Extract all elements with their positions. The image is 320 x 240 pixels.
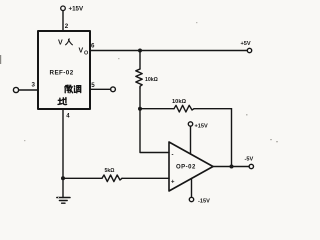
- wire: Vo output pin 6 to +5V: [90, 50, 247, 52]
- svg-text:10kΩ: 10kΩ: [145, 77, 158, 83]
- svg-text:V: V: [79, 48, 84, 55]
- terminal -15V (op-amp supply): [189, 197, 193, 201]
- junction output node: [230, 165, 234, 169]
- svg-text:V: V: [58, 39, 63, 46]
- wire: node B down to inverting input: [140, 109, 169, 153]
- terminal +5V: [247, 48, 251, 52]
- svg-text:5kΩ: 5kΩ: [105, 168, 115, 174]
- label ground pin (地): [58, 98, 67, 105]
- resistor R1 10k vertical: wire + zigzag: [139, 51, 141, 70]
- IC U1 REF-02 box: [38, 31, 90, 109]
- svg-text:REF-02: REF-02: [50, 69, 74, 76]
- junction node A (output / R1): [138, 49, 142, 53]
- op-amp U2 OP-02 triangle: [169, 142, 213, 191]
- terminal -5V: [249, 164, 253, 168]
- svg-text:4: 4: [66, 113, 70, 119]
- wire: +15V terminal to pin 2: [62, 11, 64, 31]
- svg-text:10kΩ: 10kΩ: [172, 99, 186, 105]
- resistor R2 10k horizontal feedback: wire + zigzag: [140, 108, 174, 110]
- junction node B (R1 / R2 / inverting line): [138, 107, 142, 111]
- resistor R3 5k: wire + zigzag to non-inverting input: [63, 177, 102, 179]
- svg-text:5: 5: [91, 82, 95, 89]
- svg-text:6: 6: [91, 43, 95, 50]
- wire: +15V to op-amp top: [190, 126, 192, 154]
- junction ground node: [61, 176, 65, 180]
- svg-text:3: 3: [32, 82, 36, 89]
- terminal +15V (REF-02 supply): [61, 6, 66, 11]
- svg-text:OP-02: OP-02: [176, 165, 196, 171]
- faint scan speckles: [0, 22, 278, 198]
- wire: feedback down to output node: [231, 109, 233, 167]
- ground symbol: [57, 197, 70, 199]
- svg-text:-15V: -15V: [198, 199, 210, 205]
- pin 5 terminal: [90, 88, 111, 90]
- wire: pin 3: [19, 89, 38, 91]
- wire: pin 4 down to ground node: [62, 109, 64, 198]
- svg-text:+: +: [171, 180, 175, 186]
- svg-text:-5V: -5V: [245, 157, 254, 163]
- pin 3 terminal: [13, 87, 18, 92]
- svg-text:+15V: +15V: [69, 6, 84, 13]
- wire: -15V to op-amp bottom: [191, 179, 193, 198]
- label trim (微调): [65, 85, 81, 93]
- svg-text:O: O: [84, 51, 88, 57]
- terminal +15V (op-amp supply): [188, 122, 192, 126]
- svg-text:+15V: +15V: [195, 123, 208, 129]
- wire: op-amp output: [213, 166, 249, 168]
- svg-text:-: -: [172, 153, 174, 159]
- svg-text:+5V: +5V: [241, 41, 251, 47]
- svg-text:2: 2: [65, 23, 69, 30]
